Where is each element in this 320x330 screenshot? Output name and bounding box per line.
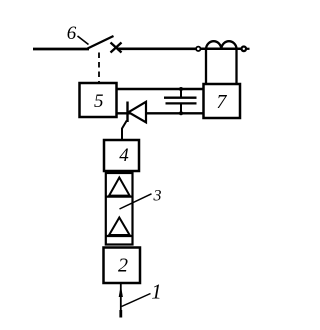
wire: input line below block 2 <box>120 284 122 318</box>
node terminal circle left <box>196 47 200 51</box>
thyristor VS cathode bar <box>126 102 128 123</box>
svg-text:5: 5 <box>94 91 104 112</box>
junction dot top <box>179 87 183 91</box>
dashed control link from switch to block 5 <box>98 53 100 83</box>
svg-text:2: 2 <box>118 255 128 277</box>
svg-text:1: 1 <box>151 280 162 304</box>
block 4 box <box>104 140 139 171</box>
inductor L winding (two humps) <box>206 41 237 49</box>
wire: capacitor bottom lead <box>180 103 182 113</box>
block 7 box <box>204 84 241 118</box>
input line lower thick end <box>119 310 122 318</box>
switch SW blade (element 6) <box>88 36 114 49</box>
wire: top bus right segment <box>117 47 196 50</box>
leader line for label 6 <box>78 36 89 45</box>
block 5 box <box>80 83 117 117</box>
wire: right stub <box>246 48 249 50</box>
capacitor C top plate <box>164 97 197 99</box>
svg-text:3: 3 <box>153 188 162 205</box>
svg-text:7: 7 <box>216 91 227 113</box>
wire: block5 to block7 bottom <box>117 112 204 114</box>
wire: bus under inductor <box>201 48 242 51</box>
junction dot bottom <box>179 111 183 115</box>
block 2 box <box>104 248 141 284</box>
leader line for label 3 <box>120 194 152 209</box>
wire: right drop to block 7 <box>235 49 237 85</box>
wire: block5 to block7 top <box>117 88 204 90</box>
wire: thyristor gate to block 4 <box>122 121 127 141</box>
svg-text:6: 6 <box>67 23 77 44</box>
breaker contact X mark <box>111 43 122 53</box>
leader line for label 1 <box>122 294 151 307</box>
block 3 chain rectangle <box>106 173 133 245</box>
capacitor C bottom plate <box>166 102 197 104</box>
wire: capacitor top lead <box>180 89 182 98</box>
input arrowhead (element 1) <box>119 285 123 297</box>
wire: left drop to block 7 <box>205 49 207 85</box>
thyristor VS triangle <box>129 102 147 123</box>
svg-text:4: 4 <box>119 145 129 166</box>
cell triangle 2 <box>109 218 130 236</box>
cell triangle 1 <box>109 178 130 196</box>
cell divider 2 <box>106 235 133 237</box>
node terminal circle right <box>242 47 247 52</box>
cell divider 1 <box>106 196 133 198</box>
wire: top bus left segment <box>33 48 89 51</box>
